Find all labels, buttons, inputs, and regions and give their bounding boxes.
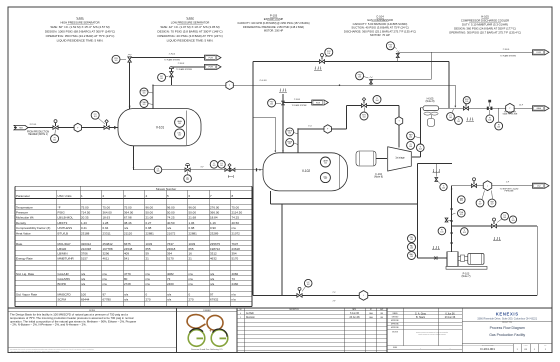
logo brown O bbox=[207, 315, 223, 330]
svg-text:n/a: n/a bbox=[210, 282, 215, 286]
svg-text:6 Jun 06: 6 Jun 06 bbox=[445, 312, 455, 315]
svg-text:n/a: n/a bbox=[189, 277, 194, 281]
svg-text:Std. Liq. Rate: Std. Liq. Rate bbox=[16, 272, 35, 276]
svg-text:5170: 5170 bbox=[167, 256, 174, 260]
svg-text:CAPACITY: 100 GPM (0.38 M3/M): CAPACITY: 100 GPM (0.38 M3/M) @ 2250 PSI… bbox=[237, 21, 309, 25]
svg-text:103: 103 bbox=[440, 232, 443, 234]
svg-text:DESCRIPTION: DESCRIPTION bbox=[289, 309, 299, 311]
drop leg to LCV line bbox=[281, 204, 283, 295]
pump relief valve bbox=[445, 218, 448, 222]
svg-text:HEADER (NOTE 1): HEADER (NOTE 1) bbox=[28, 133, 48, 136]
svg-text:103: 103 bbox=[503, 217, 506, 219]
logo brown G bbox=[187, 315, 223, 331]
svg-text:Std. Vapor Rate: Std. Vapor Rate bbox=[16, 293, 37, 297]
svg-text:101: 101 bbox=[178, 135, 181, 137]
V-102 liquid outlet to pump suction bbox=[270, 191, 272, 204]
svg-text:103: 103 bbox=[442, 188, 445, 190]
svg-text:0.94: 0.94 bbox=[103, 226, 109, 230]
svg-text:105: 105 bbox=[488, 119, 491, 121]
suction riser into compressor bbox=[398, 106, 400, 148]
equipment title block P-103 bbox=[237, 14, 309, 33]
svg-text:23 Jun 06: 23 Jun 06 bbox=[349, 317, 360, 319]
svg-text:Parameter: Parameter bbox=[16, 194, 30, 198]
svg-text:As Built: As Built bbox=[246, 312, 254, 315]
svg-text:364.00: 364.00 bbox=[103, 211, 113, 215]
svg-text:50.00: 50.00 bbox=[146, 211, 154, 215]
svg-text:DESIGN: 70 PSIG (5.8 BARG) AT: DESIGN: 70 PSIG (5.8 BARG) AT 300°F (149… bbox=[157, 29, 222, 33]
svg-text:Pressure: Pressure bbox=[16, 211, 28, 215]
svg-text:1.06: 1.06 bbox=[189, 221, 195, 225]
svg-text:n/a: n/a bbox=[81, 272, 86, 276]
off-page connector to flare (PCV) bbox=[205, 64, 222, 69]
svg-text:LIQUID RESIDENCE TIME: 5 MIN.: LIQUID RESIDENCE TIME: 5 MIN. bbox=[167, 38, 214, 42]
svg-text:4082: 4082 bbox=[232, 272, 239, 276]
relief valve PSV-103 on HP gas line to flare header bbox=[370, 79, 372, 85]
svg-text:103: 103 bbox=[463, 232, 466, 234]
svg-text:96.00: 96.00 bbox=[189, 205, 197, 209]
svg-text:1033: 1033 bbox=[146, 242, 153, 246]
svg-text:(Note 8): (Note 8) bbox=[425, 100, 434, 103]
company logo box bbox=[177, 308, 238, 353]
svg-text:100: 100 bbox=[81, 293, 86, 297]
svg-text:LIQUID RESIDENCE TIME: 5 MIN.: LIQUID RESIDENCE TIME: 5 MIN. bbox=[57, 38, 104, 42]
svg-text:LB/HR: LB/HR bbox=[58, 247, 68, 251]
svg-text:3296: 3296 bbox=[103, 252, 110, 256]
export gas line after cooler bbox=[439, 107, 532, 109]
export liquid line bbox=[452, 185, 532, 187]
svg-text:1st stage: 1st stage bbox=[395, 157, 405, 160]
svg-text:67.98: 67.98 bbox=[124, 216, 132, 220]
svg-text:6 Jun 06: 6 Jun 06 bbox=[350, 313, 360, 315]
svg-text:FLR: FLR bbox=[209, 57, 214, 59]
svg-text:Heat Value: Heat Value bbox=[16, 231, 31, 235]
PI/TI instruments after cooler bbox=[447, 113, 455, 121]
compressor suction line bbox=[298, 128, 347, 130]
svg-text:103: 103 bbox=[358, 76, 361, 78]
svg-text:104: 104 bbox=[376, 100, 379, 102]
svg-text:B. Stack: B. Stack bbox=[416, 316, 426, 319]
svg-text:20.35: 20.35 bbox=[81, 216, 89, 220]
svg-text:1033: 1033 bbox=[189, 242, 196, 246]
svg-text:SECTION: SECTION bbox=[392, 332, 398, 334]
svg-text:364.00: 364.00 bbox=[124, 211, 134, 215]
svg-text:40.50: 40.50 bbox=[232, 221, 240, 225]
svg-text:101: 101 bbox=[115, 60, 118, 62]
svg-text:3706: 3706 bbox=[81, 252, 88, 256]
svg-text:655: 655 bbox=[146, 247, 151, 251]
svg-text:104: 104 bbox=[363, 117, 366, 119]
svg-text:103: 103 bbox=[460, 200, 463, 202]
temperature control valve on recycle bbox=[491, 224, 496, 228]
svg-text:0.98: 0.98 bbox=[146, 226, 152, 230]
svg-text:7637: 7637 bbox=[167, 242, 174, 246]
svg-text:SIZE: 42" I.D. (1.07 M) X 10′-: SIZE: 42" I.D. (1.07 M) X 10′-0" S/S (3.… bbox=[160, 25, 219, 29]
vessel V-102 low pressure separator bbox=[263, 153, 348, 191]
svg-text:BY: BY bbox=[370, 309, 372, 311]
level control valve LCV-102 bbox=[297, 294, 302, 298]
svg-text:V-101: V-101 bbox=[156, 126, 165, 130]
svg-text:2"-F-103: 2"-F-103 bbox=[294, 99, 300, 101]
svg-text:74.25: 74.25 bbox=[167, 216, 175, 220]
svg-text:n/a: n/a bbox=[124, 298, 129, 302]
svg-text:GAS PIPELINE: GAS PIPELINE bbox=[503, 113, 518, 116]
svg-text:L: L bbox=[363, 295, 364, 297]
svg-text:235675: 235675 bbox=[210, 242, 220, 246]
off-page connector to flare from V-102 bbox=[312, 100, 329, 105]
bottom band divider bbox=[8, 307, 552, 309]
svg-text:38.46: 38.46 bbox=[124, 221, 132, 225]
svg-text:23618: 23618 bbox=[232, 247, 241, 251]
svg-text:n/a: n/a bbox=[103, 272, 108, 276]
title block bbox=[387, 308, 552, 353]
svg-text:101: 101 bbox=[213, 165, 216, 167]
svg-text:LB/MIN: LB/MIN bbox=[58, 252, 68, 256]
svg-text:75.00: 75.00 bbox=[124, 205, 132, 209]
cooler fan blades bbox=[424, 112, 431, 115]
svg-text:18.63: 18.63 bbox=[103, 216, 111, 220]
svg-text:4611: 4611 bbox=[103, 256, 110, 260]
svg-text:102: 102 bbox=[307, 284, 310, 286]
svg-text:102: 102 bbox=[270, 104, 273, 106]
relief valve PSV-101 bbox=[128, 57, 132, 62]
svg-text:67932: 67932 bbox=[210, 298, 219, 302]
pump suction line bbox=[418, 257, 448, 259]
flow element hexagon on feed line bbox=[74, 123, 81, 132]
svg-text:23 Jun 06: 23 Jun 06 bbox=[445, 316, 456, 319]
svg-text:69444: 69444 bbox=[81, 298, 90, 302]
in-line hexagon on LCV line bbox=[359, 291, 367, 301]
svg-text:23188: 23188 bbox=[81, 231, 90, 235]
svg-text:SHEET: SHEET bbox=[524, 344, 528, 346]
svg-text:n/a: n/a bbox=[189, 282, 194, 286]
svg-text:C-104: C-104 bbox=[376, 14, 384, 18]
svg-text:270: 270 bbox=[146, 298, 151, 302]
flare sub-header from PSV-103 bbox=[371, 78, 432, 80]
svg-text:5170: 5170 bbox=[232, 256, 239, 260]
svg-text:2"-F-101: 2"-F-101 bbox=[169, 53, 176, 55]
svg-text:Gas Production Facility: Gas Production Facility bbox=[489, 333, 525, 337]
svg-text:2460: 2460 bbox=[232, 282, 239, 286]
export gas SDV bbox=[463, 107, 468, 111]
svg-text:59: 59 bbox=[146, 252, 150, 256]
svg-text:714.50: 714.50 bbox=[81, 211, 91, 215]
weir plate inside V-102 bbox=[338, 155, 340, 190]
notes box bbox=[8, 308, 177, 353]
svg-text:OPERATING: 40 PSIG (3.8 BAR) A: OPERATING: 40 PSIG (3.8 BAR) AT 75°F (24… bbox=[157, 34, 222, 38]
svg-text:97: 97 bbox=[210, 293, 214, 297]
svg-text:1: 1 bbox=[240, 317, 241, 319]
svg-text:3312: 3312 bbox=[210, 252, 217, 256]
HP gas drop to export line bbox=[454, 85, 456, 106]
svg-text:21072: 21072 bbox=[232, 231, 241, 235]
svg-text:105: 105 bbox=[465, 101, 468, 103]
svg-text:2728: 2728 bbox=[124, 282, 131, 286]
svg-text:101: 101 bbox=[157, 170, 160, 172]
svg-text:D-204-001: D-204-001 bbox=[480, 347, 495, 351]
svg-text:V-102: V-102 bbox=[186, 16, 194, 20]
off-page connector to flare top right bbox=[533, 50, 550, 55]
pressure control valve to flare PCV bbox=[170, 67, 172, 85]
svg-text:OPERATING: 300 PSIG (20.7 BAR): OPERATING: 300 PSIG (20.7 BAR) AT 275.7°… bbox=[449, 31, 521, 35]
svg-text:102: 102 bbox=[288, 143, 291, 145]
svg-text:P-103: P-103 bbox=[270, 14, 278, 18]
svg-text:– 2%, N-Butane – 2%, N-Pentane: – 2%, N-Butane – 2%, N-Pentane – 2%, and… bbox=[10, 323, 87, 327]
V-102 gas outlet riser to compressor bbox=[297, 129, 299, 153]
svg-text:n/a: n/a bbox=[232, 298, 237, 302]
svg-text:2"-P: 2"-P bbox=[332, 292, 335, 294]
svg-text:0.41: 0.41 bbox=[81, 226, 87, 230]
vent near export SDV bbox=[466, 118, 468, 120]
svg-text:73: 73 bbox=[167, 277, 171, 281]
svg-text:101: 101 bbox=[178, 123, 181, 125]
double block valves with actuator bbox=[229, 167, 231, 169]
svg-text:PSIG: PSIG bbox=[58, 211, 66, 215]
pressure instruments on V-101 gas line bbox=[140, 88, 148, 96]
svg-text:103: 103 bbox=[460, 214, 463, 216]
svg-text:GAL/HR: GAL/HR bbox=[58, 272, 70, 276]
equipment title block V-101 bbox=[45, 16, 115, 42]
pump discharge riser bbox=[451, 186, 453, 252]
svg-text:198722: 198722 bbox=[210, 247, 220, 251]
svg-text:n/a: n/a bbox=[103, 282, 108, 286]
svg-text:6675: 6675 bbox=[124, 242, 131, 246]
svg-text:Density: Density bbox=[16, 221, 27, 225]
compressor recycle line bbox=[253, 61, 449, 63]
equipment title block C-104 bbox=[344, 14, 416, 37]
V-101 gas outlet riser bbox=[152, 85, 154, 109]
svg-text:24548: 24548 bbox=[124, 247, 133, 251]
relief valve PSV-104 on recycle line to flare bbox=[397, 52, 399, 61]
svg-text:MOL/DAY: MOL/DAY bbox=[58, 242, 71, 246]
off-page connector FROM PRODUCTION HEADER bbox=[14, 125, 28, 129]
flare header line to top right connector bbox=[398, 51, 532, 53]
equipment title block H-105 bbox=[449, 15, 521, 35]
svg-text:21072: 21072 bbox=[167, 231, 176, 235]
vessel V-101 high pressure separator bbox=[118, 109, 201, 146]
svg-text:75.00: 75.00 bbox=[103, 205, 111, 209]
svg-text:DESIGN: 1000 PSIG (68.9 BARG): DESIGN: 1000 PSIG (68.9 BARG) AT 300°F (… bbox=[45, 29, 115, 33]
svg-text:75.00: 75.00 bbox=[232, 205, 240, 209]
revision history table bbox=[237, 308, 387, 353]
svg-text:21: 21 bbox=[189, 256, 193, 260]
discharge instruments bbox=[458, 196, 466, 204]
svg-text:n/a: n/a bbox=[124, 293, 129, 297]
svg-text:0.90: 0.90 bbox=[210, 226, 216, 230]
svg-text:BTU/LB: BTU/LB bbox=[58, 231, 69, 235]
svg-text:270: 270 bbox=[189, 298, 194, 302]
svg-text:MOTOR: 200 HP: MOTOR: 200 HP bbox=[264, 29, 284, 33]
svg-text:21: 21 bbox=[146, 256, 150, 260]
pressure gauge PI below feed valve bbox=[51, 135, 59, 143]
svg-text:FLR: FLR bbox=[209, 67, 214, 69]
weir plate inside V-101 bbox=[186, 110, 188, 145]
svg-text:366.00: 366.00 bbox=[210, 211, 220, 215]
recycle control valve bbox=[319, 60, 324, 64]
svg-text:n/a: n/a bbox=[210, 272, 215, 276]
svg-text:UNITLESS: UNITLESS bbox=[58, 226, 73, 230]
drain valve and vent on recycle loop bbox=[435, 164, 437, 177]
recycle to TCV line bbox=[452, 225, 538, 227]
svg-text:276.00: 276.00 bbox=[210, 205, 220, 209]
svg-text:GAS: GAS bbox=[536, 107, 541, 110]
svg-text:1.16: 1.16 bbox=[210, 221, 216, 225]
svg-text:NOTES: NOTES bbox=[89, 310, 96, 312]
svg-text:80: 80 bbox=[124, 277, 128, 281]
level instruments inside V-102 bbox=[320, 157, 330, 167]
flare line from PSV-101 bbox=[131, 57, 204, 59]
svg-text:Stream Number: Stream Number bbox=[156, 187, 176, 191]
svg-text:FLR: FLR bbox=[316, 102, 321, 104]
HP gas line from V-101 bbox=[153, 84, 455, 86]
svg-text:V-102: V-102 bbox=[302, 169, 311, 173]
pressure switches on pump suction bbox=[408, 235, 416, 243]
svg-text:0.98: 0.98 bbox=[189, 226, 195, 230]
drain vents near pump suction bbox=[432, 246, 434, 248]
svg-text:MMSCFD: MMSCFD bbox=[58, 293, 72, 297]
svg-text:n/a: n/a bbox=[146, 282, 151, 286]
vent stack near recycle valve bbox=[314, 67, 316, 69]
feed line from production header bbox=[14, 127, 118, 129]
svg-text:SCFM: SCFM bbox=[58, 298, 67, 302]
svg-text:101: 101 bbox=[143, 104, 146, 106]
discharge instruments bbox=[407, 132, 415, 140]
svg-text:Temperature: Temperature bbox=[16, 205, 33, 209]
svg-text:103: 103 bbox=[410, 239, 413, 241]
svg-text:(Note 7): (Note 7) bbox=[461, 275, 470, 278]
svg-text:22881: 22881 bbox=[146, 231, 155, 235]
svg-text:HIGH PRESSURE SEPARATOR: HIGH PRESSURE SEPARATOR bbox=[60, 21, 99, 25]
svg-text:5157: 5157 bbox=[81, 256, 88, 260]
svg-text:2114.50: 2114.50 bbox=[232, 211, 243, 215]
svg-text:2460: 2460 bbox=[167, 282, 174, 286]
svg-text:GAL/MIN: GAL/MIN bbox=[58, 277, 70, 281]
svg-text:FLR: FLR bbox=[537, 52, 542, 54]
svg-text:23618: 23618 bbox=[167, 247, 176, 251]
svg-text:n/a: n/a bbox=[103, 277, 108, 281]
svg-text:655: 655 bbox=[189, 247, 194, 251]
equipment title block V-102 bbox=[157, 16, 222, 42]
svg-text:21.08: 21.08 bbox=[146, 216, 154, 220]
line to V-102 top (recycle return) bbox=[253, 116, 275, 118]
svg-text:67780: 67780 bbox=[103, 298, 112, 302]
svg-text:40.50: 40.50 bbox=[167, 221, 175, 225]
svg-text:104: 104 bbox=[419, 148, 422, 150]
svg-text:0: 0 bbox=[240, 313, 241, 315]
svg-text:PIPELINE: PIPELINE bbox=[504, 190, 514, 192]
svg-text:101: 101 bbox=[220, 165, 223, 167]
logo black accents bbox=[190, 329, 228, 337]
svg-text:8"-P-101: 8"-P-101 bbox=[30, 124, 37, 126]
svg-text:2"-P: 2"-P bbox=[333, 300, 336, 302]
svg-text:Compressibility Factor (Z): Compressibility Factor (Z) bbox=[16, 226, 50, 230]
logo green G right bbox=[211, 330, 228, 347]
svg-text:n/a: n/a bbox=[232, 293, 237, 297]
svg-text:LB/FT3: LB/FT3 bbox=[58, 221, 68, 225]
off-page connector export liquid pipeline bbox=[533, 183, 550, 188]
svg-text:n/a: n/a bbox=[124, 226, 129, 230]
level instruments inside V-101 bbox=[175, 117, 185, 127]
svg-text:23311: 23311 bbox=[103, 231, 111, 235]
svg-text:21.68: 21.68 bbox=[189, 216, 197, 220]
svg-text:2"-F-105: 2"-F-105 bbox=[503, 49, 510, 51]
svg-text:BOPD: BOPD bbox=[58, 282, 67, 286]
svg-text:CHECKED: CHECKED bbox=[392, 316, 399, 318]
svg-text:n/a: n/a bbox=[81, 282, 86, 286]
V-101 PSV riser bbox=[129, 58, 131, 109]
svg-text:REV: REV bbox=[544, 344, 547, 346]
svg-text:394: 394 bbox=[232, 252, 237, 256]
in-line instrument hexagon on HP gas line bbox=[226, 81, 233, 90]
svg-text:V-101: V-101 bbox=[76, 16, 84, 20]
svg-text:n/a: n/a bbox=[81, 277, 86, 281]
svg-text:4779: 4779 bbox=[124, 272, 131, 276]
svg-text:S. A. Gray: S. A. Gray bbox=[415, 312, 427, 315]
stream summary table bbox=[15, 186, 252, 306]
svg-text:16: 16 bbox=[189, 252, 193, 256]
svg-text:103: 103 bbox=[512, 220, 515, 222]
svg-text:n/a: n/a bbox=[167, 298, 172, 302]
svg-text:101: 101 bbox=[94, 116, 97, 118]
svg-text:96.00: 96.00 bbox=[167, 205, 175, 209]
svg-text:1.28: 1.28 bbox=[103, 221, 109, 225]
V-102 PSV and vent riser bbox=[282, 94, 284, 153]
svg-text:n/a: n/a bbox=[146, 272, 151, 276]
svg-text:104: 104 bbox=[409, 136, 412, 138]
svg-text:Energy Rate: Energy Rate bbox=[16, 256, 33, 260]
svg-text:18.84: 18.84 bbox=[210, 216, 218, 220]
LCV line from V-102 bottoms bbox=[253, 294, 537, 296]
inlet shutdown valve SDV with instrument bbox=[104, 126, 109, 130]
svg-text:MOTOR: 70 HP: MOTOR: 70 HP bbox=[370, 33, 390, 37]
svg-text:7637: 7637 bbox=[232, 242, 239, 246]
svg-text:0.27: 0.27 bbox=[146, 221, 152, 225]
svg-text:104: 104 bbox=[327, 53, 330, 55]
svg-text:50.00: 50.00 bbox=[167, 211, 175, 215]
svg-text:n/a: n/a bbox=[167, 293, 172, 297]
svg-text:Molecular Wt: Molecular Wt bbox=[16, 216, 34, 220]
svg-text:L: L bbox=[487, 185, 488, 187]
orifice meter on export gas line bbox=[487, 107, 489, 110]
svg-text:409: 409 bbox=[124, 252, 129, 256]
level control valve LCV-101 bbox=[185, 168, 190, 172]
svg-text:102: 102 bbox=[324, 163, 327, 165]
svg-text:1.43: 1.43 bbox=[81, 221, 87, 225]
svg-text:USC Units: USC Units bbox=[58, 194, 73, 198]
pump recycle loop line bbox=[417, 164, 419, 259]
svg-text:101: 101 bbox=[186, 179, 189, 181]
svg-text:107: 107 bbox=[479, 204, 482, 206]
svg-text:222338: 222338 bbox=[81, 247, 91, 251]
svg-text:PROJECT TITLE: PROJECT TITLE bbox=[502, 322, 512, 324]
svg-text:Process Flow Diagram: Process Flow Diagram bbox=[490, 326, 525, 330]
svg-text:107: 107 bbox=[491, 204, 494, 206]
svg-text:TO FLARE SYSTEM: TO FLARE SYSTEM bbox=[164, 59, 180, 62]
in-line hexagon on export gas line bbox=[506, 103, 514, 113]
in-line instrument on liquid line bbox=[154, 166, 162, 174]
svg-text:MMBTU/HR: MMBTU/HR bbox=[58, 256, 75, 260]
svg-text:97: 97 bbox=[103, 293, 107, 297]
svg-text:106: 106 bbox=[497, 127, 500, 129]
svg-text:104: 104 bbox=[389, 46, 392, 48]
svg-text:74.25: 74.25 bbox=[232, 216, 240, 220]
logo green G left bbox=[188, 330, 228, 347]
svg-text:105: 105 bbox=[457, 121, 460, 123]
svg-text:n/a: n/a bbox=[167, 226, 172, 230]
svg-text:°F: °F bbox=[58, 205, 61, 209]
svg-text:22881: 22881 bbox=[189, 231, 198, 235]
V-102 flare line bbox=[283, 102, 313, 104]
svg-text:101: 101 bbox=[53, 139, 56, 141]
